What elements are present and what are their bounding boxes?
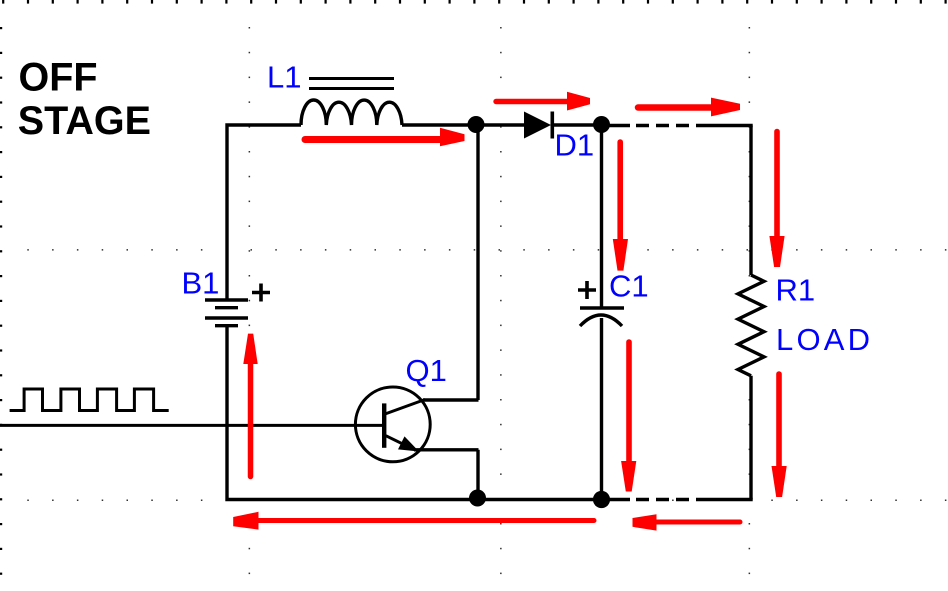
current arrow: R1 branch lower (downward) [776,374,782,467]
wire: emitter vertical down to node C [476,450,479,499]
node A (L1 / D1 / collector junction) [468,116,485,133]
wire: bottom rail (node D to battery bottom corner) [227,327,601,500]
current arrow: into load branch (rightward) [638,104,712,111]
transistor Q1 [355,387,430,462]
wire: base drive line [0,424,384,427]
wire: L1 to node A [402,123,476,126]
svg-text:B1: B1 [182,266,220,301]
resistor R1 [738,275,764,376]
svg-text:R1: R1 [776,273,816,308]
current arrow: R1 branch upper (downward) [774,132,780,238]
current arrow: battery branch (upward) [248,362,254,477]
svg-text:Q1: Q1 [406,353,447,388]
current arrow: C1 branch lower (downward) [626,342,632,462]
wire: battery positive lead up to top rail corner [227,125,301,299]
inductor L1 core lines [309,79,394,89]
wire (dashed): lower right corner to node D [696,498,753,501]
square wave input signal [10,389,169,411]
svg-text:STAGE: STAGE [18,99,151,143]
wire: right branch vertical down to R1 [749,126,752,276]
diode D1 [524,112,551,139]
wire: diode cathode to node B [554,123,601,126]
capacitor C1 [580,306,624,310]
polarity + (C1) [578,281,596,299]
inductor L1 [301,100,402,125]
svg-text:OFF: OFF [19,55,98,99]
wire: node B down to C1 top plate [600,125,603,307]
svg-text:C1: C1 [609,269,649,304]
polarity + (B1) [252,284,270,302]
node B (D1 / C1 junction) [593,116,610,133]
node D (C1 bottom junction) [593,491,610,508]
svg-text:L1: L1 [267,60,301,95]
wire: node A to diode anode [476,123,524,126]
current arrow: bottom rail short (leftward) [654,520,740,525]
wire: C1 bottom plate to node D [600,318,603,499]
current arrow: through L1 (rightward) [305,136,441,143]
wire: R1 bottom to lower right corner [749,376,752,500]
current arrow: through D1 (rightward) [496,99,569,104]
wire: collector vertical up to node A [476,125,479,400]
battery B1 [205,298,248,301]
current arrow: bottom rail long (leftward) [256,518,594,523]
svg-text:LOAD: LOAD [776,322,873,357]
node C (emitter / bottom rail junction) [469,490,486,507]
current arrow: C1 branch upper (downward) [617,142,623,240]
wire (dashed): node B to load top corner [601,124,630,127]
svg-text:D1: D1 [555,128,595,163]
